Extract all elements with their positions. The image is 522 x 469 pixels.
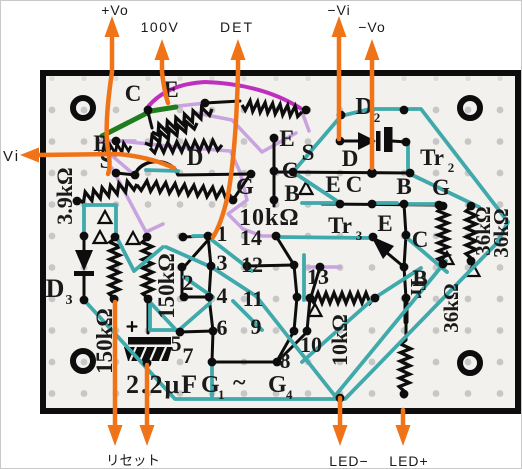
wire cyan long diag C (cyan): [302, 300, 372, 362]
svg-text:C: C: [282, 158, 299, 183]
polarity mark: [467, 264, 480, 276]
LED+ lead upper: [404, 298, 409, 322]
svg-text:E: E: [377, 211, 392, 236]
wire cyan ground bus (cyan): [84, 300, 345, 399]
svg-text:2.2μF: 2.2μF: [126, 370, 199, 399]
svg-text:12: 12: [241, 252, 263, 277]
svg-text:DET: DET: [220, 19, 254, 35]
wire cyan cap loop (cyan): [150, 297, 210, 330]
circuit board outline: [43, 73, 518, 411]
mounting hole bottom-right: [460, 353, 480, 373]
svg-text:LED−: LED−: [329, 453, 368, 469]
wire B down: [404, 267, 406, 298]
wire cyan pin4-9 (cyan): [233, 301, 262, 330]
svg-text:10kΩ: 10kΩ: [239, 205, 300, 231]
resistor top-left diag: [152, 108, 212, 135]
arrow reset 1: [108, 425, 123, 446]
capacitor 2.2uF: [131, 322, 133, 331]
mounting hole top-left: [73, 98, 93, 118]
wire cyan Tr3 row (cyan): [277, 237, 371, 238]
resistor 36k B: [466, 207, 476, 258]
wire 12 row: [247, 265, 294, 266]
wire EC row: [322, 204, 439, 205]
svg-text:B: B: [284, 181, 299, 206]
wire cyan row stub R (cyan): [408, 202, 437, 206]
mounting hole top-right: [460, 98, 480, 118]
wire cyan pin1 stub (cyan): [193, 234, 208, 238]
transistor Tr3 emitter arrow: [380, 247, 404, 267]
resistor 10k LED path: [399, 340, 411, 391]
wire lavender stub 13 (violet): [308, 265, 340, 269]
wire cyan to 36k (cyan): [408, 173, 479, 207]
wire cyan D2 drop (cyan): [406, 145, 410, 171]
wire cyan pin7 drop (cyan): [210, 365, 214, 396]
wire C to B Tr4: [404, 235, 406, 267]
svg-text:3: 3: [217, 250, 228, 275]
arrow LED-: [333, 425, 348, 446]
resistor 3.9k: [78, 181, 137, 203]
svg-text:3: 3: [356, 228, 363, 243]
wire C stub: [148, 112, 152, 128]
wire D rail: [178, 174, 251, 175]
wire lavender under resistors (violet): [120, 141, 230, 151]
wire E rail right: [274, 172, 410, 173]
wire cyan B diag (cyan): [376, 268, 421, 297]
svg-text:G: G: [236, 174, 254, 199]
svg-text:1: 1: [218, 387, 225, 402]
arrow DET: [231, 39, 246, 60]
svg-text:G: G: [432, 175, 450, 200]
mounting hole bottom-left: [73, 351, 93, 371]
svg-text:−Vi: −Vi: [327, 2, 350, 18]
wire cyan pin3-11 (cyan): [213, 268, 256, 296]
svg-text:Tr: Tr: [420, 145, 444, 170]
svg-text:36kΩ: 36kΩ: [489, 208, 513, 258]
polarity mark: [309, 304, 322, 316]
wire lavender to pin14 (violet): [228, 152, 275, 236]
wire lavender E drop (violet): [301, 109, 309, 131]
wire cyan row stub M (cyan): [375, 201, 397, 205]
resistor small B: [98, 143, 131, 156]
svg-text:Vi: Vi: [3, 148, 20, 165]
svg-text:−Vo: −Vo: [358, 19, 386, 35]
wire cyan box (cyan): [84, 205, 116, 236]
arrow 100V: [155, 39, 170, 60]
wire IC right rail: [276, 236, 297, 361]
wire magenta arc: [147, 82, 300, 108]
svg-text:13: 13: [307, 264, 329, 289]
svg-text:2: 2: [448, 160, 455, 175]
LED+ lead lower: [403, 391, 406, 397]
svg-text:~: ~: [233, 370, 246, 396]
svg-text:9: 9: [251, 314, 262, 339]
resistor top 100V: [242, 101, 302, 117]
arrow LED+: [396, 425, 411, 446]
svg-text:G: G: [268, 372, 287, 398]
svg-text:150kΩ: 150kΩ: [154, 253, 179, 319]
wire lavender B to S (violet): [103, 148, 131, 172]
arrow -Vi: [332, 16, 347, 37]
wire pin2 diag: [184, 239, 209, 267]
svg-text:2: 2: [183, 270, 194, 295]
wire cyan pin2-4 (cyan): [184, 277, 213, 297]
wire lavender to E (violet): [196, 113, 296, 152]
svg-text:Tr: Tr: [328, 213, 352, 238]
solder pads: [73, 99, 476, 403]
wire cyan pin1-12 (cyan): [208, 237, 252, 271]
svg-text:S: S: [302, 140, 315, 165]
svg-text:D: D: [46, 274, 65, 303]
svg-text:4: 4: [286, 387, 293, 402]
wire cyan row stub L (cyan): [302, 201, 338, 205]
svg-text:E: E: [279, 126, 294, 151]
svg-text:6: 6: [217, 315, 228, 340]
wire node13: [311, 267, 320, 297]
svg-text:10kΩ: 10kΩ: [327, 314, 352, 366]
svg-text:2: 2: [374, 110, 381, 125]
resistor mid row2: [137, 181, 231, 199]
svg-text:7: 7: [183, 343, 194, 368]
arrow Vi: [20, 148, 39, 163]
wire cyan diag (cyan): [148, 300, 177, 331]
wire cyan C diag (cyan): [406, 237, 447, 272]
wire lavender V left (violet): [112, 168, 163, 232]
wire pin5 to pin6: [180, 331, 213, 332]
wire lavender B row (violet): [99, 139, 135, 143]
polarity mark: [94, 231, 107, 243]
wire pin10 up: [307, 298, 310, 331]
wire B to C Tr3: [404, 204, 406, 235]
wire green: [102, 107, 176, 136]
svg-text:8: 8: [280, 348, 291, 373]
wire IC left rail: [183, 236, 213, 362]
wire lavender under E (violet): [178, 103, 206, 106]
resistor 10k pin13: [310, 293, 374, 303]
svg-text:B: B: [396, 174, 411, 199]
svg-text:D: D: [342, 146, 359, 171]
svg-text:36kΩ: 36kΩ: [439, 283, 463, 333]
wire top link: [205, 101, 240, 103]
svg-text:Tr: Tr: [406, 276, 431, 299]
resistor mid row1: [145, 122, 197, 145]
svg-text:C: C: [125, 81, 142, 106]
wire pin7 to pin8: [212, 361, 277, 364]
polarity mark: [99, 211, 112, 223]
svg-text:11: 11: [243, 286, 264, 311]
svg-text:+Vo: +Vo: [101, 2, 129, 18]
svg-text:C: C: [346, 172, 363, 197]
polarity mark: [127, 232, 140, 244]
svg-text:リセット: リセット: [106, 453, 160, 468]
svg-text:C: C: [412, 227, 429, 252]
diode D2: [340, 140, 358, 143]
svg-text:3: 3: [66, 293, 73, 308]
jumper arc at S: [116, 173, 135, 175]
arrow -Vo: [365, 39, 380, 60]
diode D3: [83, 237, 86, 251]
wire cyan under arc (cyan): [146, 170, 178, 171]
wire cyan long diag B (cyan): [335, 261, 446, 396]
wire pin2 rail: [182, 267, 209, 297]
svg-text:5: 5: [171, 331, 182, 356]
wire cyan S drop (cyan): [293, 172, 337, 201]
perfboard hole grid: [49, 76, 504, 397]
svg-text:LED+: LED+: [389, 453, 428, 469]
wire pin8 to pin10: [277, 332, 307, 362]
transistor Tr1 rail: [273, 138, 276, 206]
svg-text:E: E: [325, 172, 340, 197]
wire cyan long diag A (cyan): [256, 296, 335, 396]
wire cyan main loop (cyan): [293, 109, 508, 398]
polarity mark: [300, 182, 313, 194]
resistor 36k A: [438, 207, 448, 263]
polarity mark: [441, 252, 454, 264]
wire cyan to pin3 (cyan): [166, 247, 211, 267]
svg-text:100V: 100V: [141, 19, 180, 35]
wire G stub: [233, 176, 249, 200]
svg-text:4: 4: [217, 283, 228, 308]
svg-text:D: D: [187, 145, 204, 170]
wire cyan 14 drop (cyan): [302, 255, 306, 300]
wire cyan V left (cyan): [116, 236, 163, 271]
arrow reset 2: [140, 425, 155, 446]
resistor 150k mid: [142, 238, 153, 298]
wire cap lead: [147, 299, 150, 333]
svg-text:3.9kΩ: 3.9kΩ: [52, 167, 77, 224]
arrow +Vo: [105, 16, 120, 37]
resistor 150k left: [109, 238, 120, 298]
svg-text:10: 10: [300, 332, 322, 357]
